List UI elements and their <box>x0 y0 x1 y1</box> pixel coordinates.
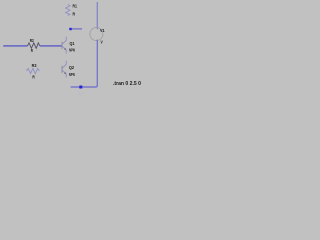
resistor R3 <box>26 68 39 73</box>
svg-text:Q2: Q2 <box>69 65 75 70</box>
svg-text:R2: R2 <box>30 38 34 43</box>
junction dot (top wire left end) <box>69 28 71 30</box>
wire (top horizontal, node to V1 side) <box>70 28 82 30</box>
resistor R2 <box>27 43 39 48</box>
resistor R1 <box>66 4 70 15</box>
background <box>0 0 154 100</box>
svg-text:V1: V1 <box>100 28 105 33</box>
voltage source V1 <box>90 28 103 41</box>
wire (left horizontal into Q1 base, left part) <box>3 45 27 47</box>
svg-text:R1: R1 <box>73 4 78 9</box>
svg-text:.tran 0 2.5 0: .tran 0 2.5 0 <box>113 81 141 87</box>
wire (left horizontal into Q1 base, right part) <box>40 45 62 47</box>
svg-text:Q1: Q1 <box>70 41 75 46</box>
ground <box>78 89 85 95</box>
svg-text:NPN: NPN <box>69 48 75 53</box>
transistor Q2 <box>62 61 66 78</box>
wire (V1 top vertical) <box>96 2 98 29</box>
transistor Q1 <box>62 37 66 54</box>
wire (V1 bottom vertical + corner + bottom horizontal) <box>71 40 98 87</box>
junction dot (bottom wire / ground tap) <box>79 86 82 89</box>
svg-text:R3: R3 <box>32 63 37 68</box>
svg-text:NPN: NPN <box>69 72 75 77</box>
